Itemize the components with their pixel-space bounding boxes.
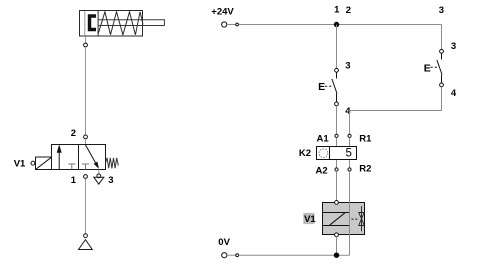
switch 1 top terminal circle [335,68,339,72]
wire A2 stub below relay [336,160,338,168]
svg-text:3: 3 [345,61,350,72]
svg-text:A1: A1 [317,133,330,144]
svg-text:1: 1 [334,5,340,16]
valve port 3 connection circle [97,174,101,178]
switch 1 NO contact [332,72,337,102]
valve port 2 stub [85,139,87,145]
svg-text:2: 2 [346,5,351,16]
svg-text:3: 3 [451,41,456,52]
cylinder piston rod [98,20,164,26]
valve V1 body [52,145,106,170]
valve right square diagonal flow path with arrow [85,144,99,168]
+24V terminal link [227,24,236,26]
svg-text:V1: V1 [304,214,316,225]
wire switch 1 to relay A1 [336,106,338,134]
wire A2 to solenoid V1 [336,171,338,200]
svg-text:K2: K2 [299,148,311,159]
junction dot on 0V rail [334,253,339,258]
wire branch 2 down to relay R1 [349,111,351,135]
relay coil circle [319,149,328,158]
valve return spring [106,158,119,169]
solenoid connection circle [31,161,35,165]
svg-text:R2: R2 [359,163,371,174]
relay divider [329,147,331,160]
svg-text:+24V: +24V [211,7,234,18]
junction dot on +24V rail [334,22,339,27]
valve port 1 connection circle [84,175,88,179]
svg-text:5: 5 [346,148,352,160]
cylinder body [80,11,143,37]
valve port 2 connection circle [84,135,88,139]
solenoid top terminal circle [335,201,339,205]
cylinder return spring [98,12,143,35]
wire R1 stub into relay [349,138,351,147]
wire R2 stub below relay [349,160,351,168]
0V terminal connection circle [236,254,239,257]
solenoid valve indicator bowtie [359,206,365,231]
relay K2 box [317,147,357,160]
svg-text:V1: V1 [14,159,26,170]
+24V rail wire [239,24,442,26]
switch 3 bottom terminal circle [440,83,444,87]
solenoid pilot box [36,157,52,170]
+24V supply terminal circle [222,22,227,27]
svg-text:E: E [424,62,431,74]
+24V terminal connection circle [236,23,239,26]
0V terminal link [227,254,236,256]
solenoid V1 gray box [323,203,365,235]
0V rail wire [239,254,350,256]
relay A1 terminal circle [335,134,338,137]
cylinder piston plate [97,11,99,36]
switch 1 bottom terminal circle [335,102,339,106]
svg-text:2: 2 [71,128,76,139]
valve left square flow arrow [57,144,62,169]
solenoid valve indicator dashes [352,218,359,220]
pneumatic tube wire valve port 1 to supply [85,179,87,234]
solenoid coil band lines [323,213,350,226]
switch 3 NO contact [437,53,442,83]
pneumatic tube wire cylinder to valve port 2 [85,47,87,135]
relay R2 terminal circle [348,168,351,171]
wire rail to switch 3 (right branch) [441,25,443,50]
0V supply terminal circle [222,253,227,258]
cylinder port connection circle [84,43,88,47]
relay A2 terminal circle [335,168,338,171]
svg-text:E: E [318,81,325,93]
wire switch 3 down and left to branch 2 [350,87,442,111]
svg-text:A2: A2 [316,165,328,176]
switch 3 top terminal circle [440,49,444,53]
valve left square blocked port T [68,164,75,170]
cylinder piston C seal [88,14,96,31]
svg-text:0V: 0V [218,237,230,248]
wire A1 stub into relay [336,138,338,147]
wire R2 down through solenoid box to 0V rail [349,171,351,255]
air supply connection circle [84,234,88,238]
svg-text:1: 1 [71,175,77,186]
svg-text:3: 3 [439,5,444,16]
wire solenoid to 0V rail [336,237,338,256]
valve port 3 stub [98,170,100,174]
valve right square blocked port T [82,164,89,170]
svg-text:4: 4 [345,106,351,117]
label V1 (solenoid) highlighted [303,213,314,224]
cylinder port stub wire [85,36,87,43]
wire rail junction to switch 1 [336,25,338,69]
svg-text:3: 3 [108,175,113,186]
svg-text:4: 4 [451,88,457,99]
svg-text:R1: R1 [359,133,372,144]
air supply triangle [79,240,93,250]
solenoid bottom terminal circle [335,233,339,237]
relay R1 terminal circle [348,134,351,137]
exhaust triangle (port 3) [94,177,104,184]
cylinder piston back line [84,11,86,36]
